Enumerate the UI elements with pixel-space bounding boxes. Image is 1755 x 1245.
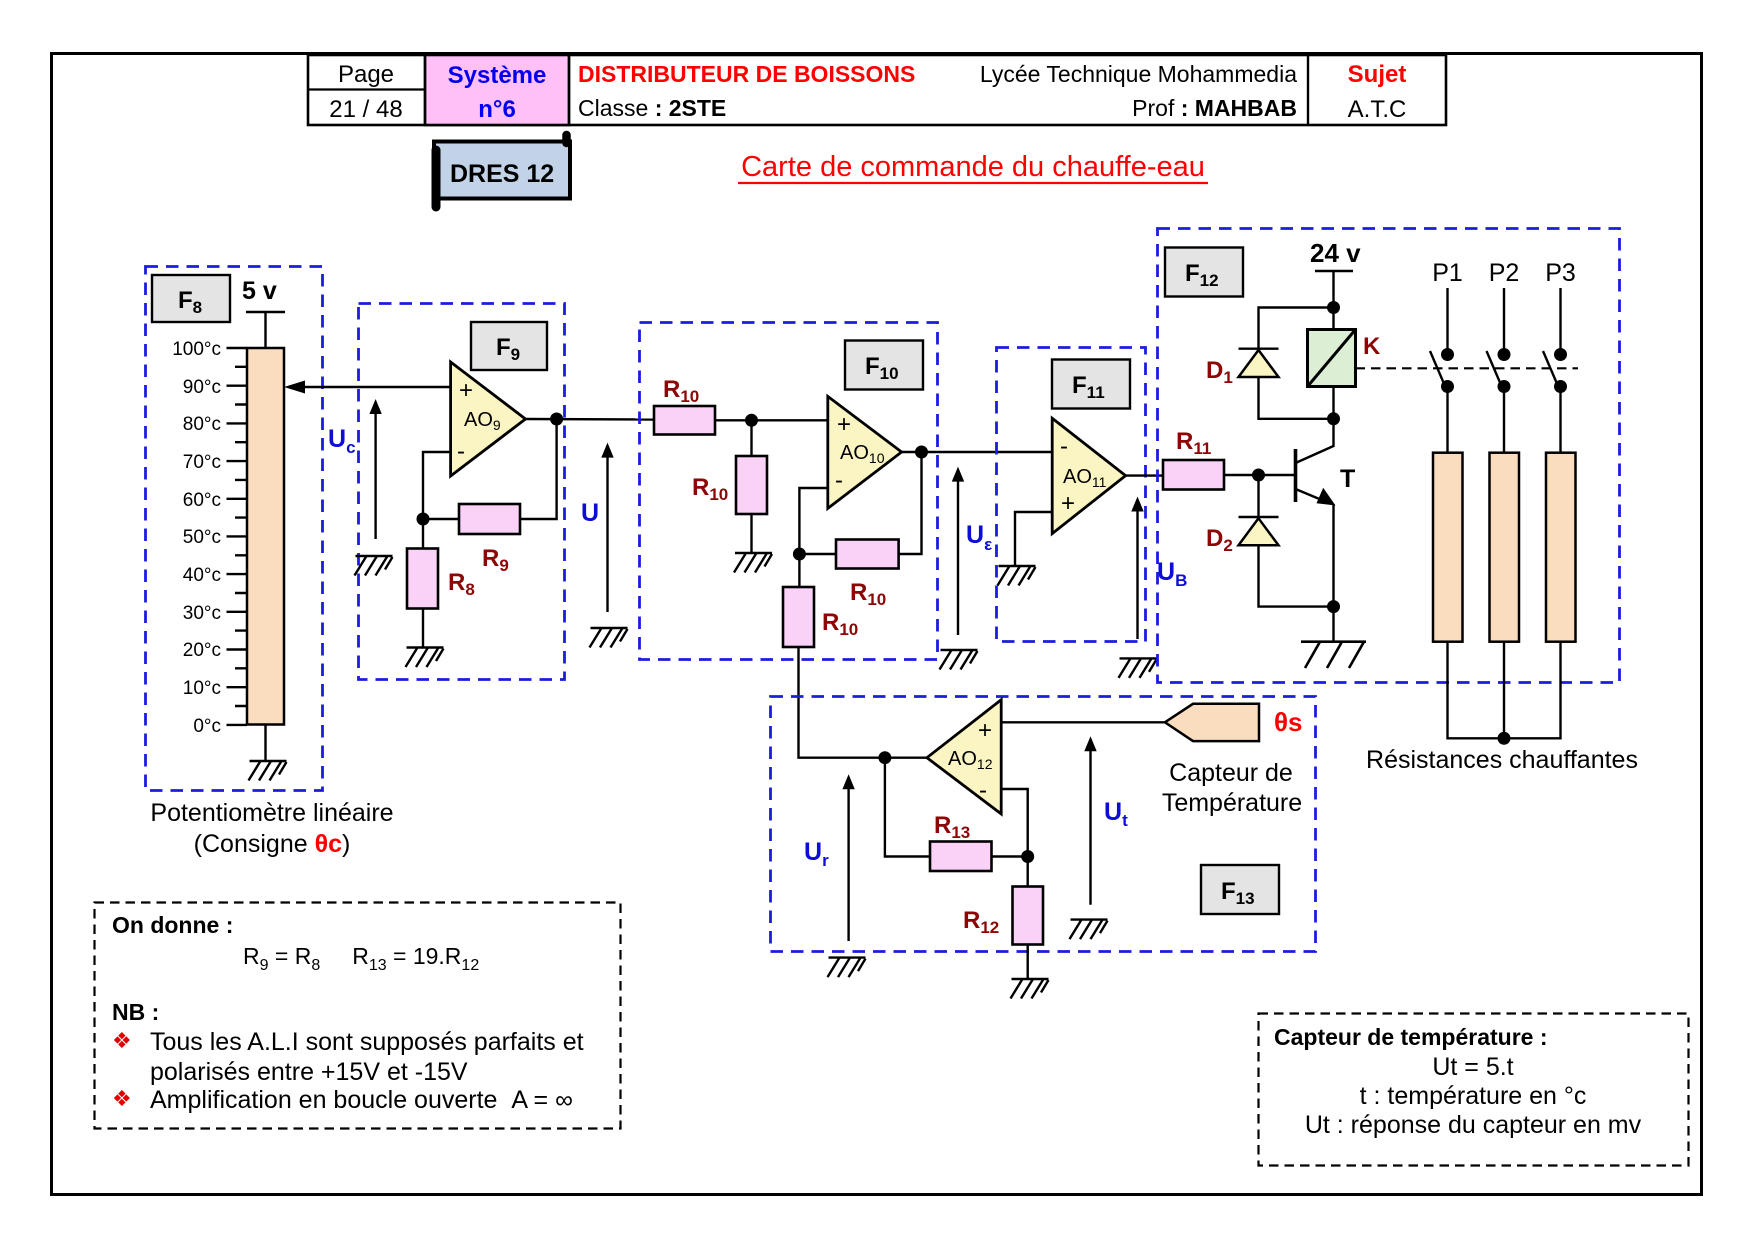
Capteur de température dashed note box	[1259, 1014, 1689, 1166]
svg-text:+: +	[837, 411, 851, 438]
heating resistor 3	[1546, 453, 1576, 642]
wire D1 bottom to collector node	[1259, 377, 1334, 419]
op-amp AO11	[1052, 418, 1125, 533]
U reference ground	[590, 628, 628, 648]
svg-text:80°c: 80°c	[183, 414, 221, 435]
ground under potentiometer	[249, 761, 287, 781]
node F9 feedback junction	[417, 513, 430, 526]
svg-text:10°c: 10°c	[183, 678, 221, 699]
svg-text:Amplification en boucle ouvert: Amplification en boucle ouverte A = ∞	[150, 1086, 573, 1114]
op-amp AO12 (points left)	[927, 700, 1001, 814]
svg-text:-: -	[457, 438, 465, 465]
svg-text:DISTRIBUTEUR DE BOISSONS: DISTRIBUTEUR DE BOISSONS	[578, 61, 915, 87]
svg-text:Sujet: Sujet	[1348, 61, 1407, 88]
node base junction	[1252, 469, 1265, 482]
wire node to R10 bottom resistor	[798, 554, 800, 587]
F10 block dashed frame	[640, 323, 938, 660]
diode D1	[1239, 349, 1279, 377]
wire AO9 inverting input to feedback node	[423, 452, 451, 519]
UB measurement arrow	[1131, 497, 1143, 640]
F8 block dashed frame	[146, 267, 323, 791]
5 v supply bar	[246, 311, 285, 313]
ground under R8	[406, 648, 444, 668]
heating resistor 2	[1490, 453, 1520, 642]
F11 label box	[1052, 360, 1130, 409]
wire R10 to AO10 + input	[715, 419, 828, 421]
ground under transistor emitter	[1301, 642, 1366, 668]
wire AO12 output node down to R13	[885, 758, 930, 857]
op-amp AO9	[451, 362, 526, 476]
svg-text:Potentiomètre linéaire: Potentiomètre linéaire	[150, 799, 393, 827]
svg-text:40°c: 40°c	[183, 565, 221, 586]
temperature sensor θs tag	[1165, 704, 1259, 741]
wire AO11 output to R11	[1126, 474, 1163, 476]
wire 5v to potentiometer top	[264, 312, 266, 348]
wire R8 to ground	[422, 609, 424, 648]
wire R9 to output node	[520, 419, 557, 519]
svg-text:P2: P2	[1489, 259, 1520, 287]
relay coil K	[1308, 330, 1356, 387]
svg-text:70°c: 70°c	[183, 452, 221, 473]
resistor R10 feedback (horizontal)	[836, 540, 899, 569]
Ur reference ground	[828, 958, 866, 978]
wire R11 to transistor base	[1224, 474, 1296, 476]
On donne dashed note box	[95, 903, 621, 1129]
header table column line 2	[568, 55, 570, 125]
mechanical link dashed line from K to switches	[1356, 367, 1579, 369]
Ut measurement arrow	[1084, 736, 1096, 905]
wire R10 feedback to output node	[899, 452, 922, 554]
svg-text:100°c: 100°c	[172, 339, 221, 360]
DRES 12 tag box	[434, 135, 570, 207]
node F10 feedback junction	[793, 548, 806, 561]
resistor R10 shunt (vertical)	[736, 456, 767, 514]
node 24v branch junction	[1327, 301, 1340, 314]
svg-text:Capteur de température :: Capteur de température :	[1274, 1024, 1548, 1050]
header table row divider (Page column)	[308, 88, 425, 90]
wire emitter down to ground	[1332, 504, 1334, 642]
24 v supply bar	[1315, 270, 1353, 272]
resistor R10 input (horizontal)	[654, 406, 715, 435]
svg-text:-: -	[979, 777, 987, 804]
Ut reference ground	[1070, 920, 1108, 940]
ground under R12	[1011, 979, 1049, 999]
wire AO12 + input to temperature sensor	[1001, 721, 1166, 723]
F11 block dashed frame	[997, 348, 1146, 642]
wire D2 bottom to emitter node	[1259, 545, 1334, 606]
resistor R11	[1163, 460, 1224, 490]
wiper wire to AO9 + input with arrow	[284, 381, 451, 394]
svg-text:(Consigne θc): (Consigne θc)	[194, 830, 351, 858]
svg-text:Prof : MAHBAB: Prof : MAHBAB	[1132, 95, 1297, 121]
svg-text:On donne :: On donne :	[112, 912, 233, 938]
heating resistor 1	[1433, 453, 1463, 642]
wire heating resistors to common bus	[1448, 642, 1561, 739]
svg-text:A.T.C: A.T.C	[1348, 96, 1407, 123]
switch P2	[1487, 288, 1511, 453]
svg-text:Ut : réponse du capteur en mv: Ut : réponse du capteur en mv	[1305, 1111, 1642, 1139]
node collector junction	[1327, 412, 1340, 425]
svg-text:20°c: 20°c	[183, 640, 221, 661]
svg-text:Classe : 2STE: Classe : 2STE	[578, 95, 726, 121]
svg-text:Carte de commande du chauffe-e: Carte de commande du chauffe-eau	[741, 151, 1205, 183]
Uε reference ground	[940, 650, 978, 670]
wire node to R12	[1026, 857, 1028, 887]
header table column line 1	[424, 55, 426, 125]
F12 block dashed frame	[1158, 229, 1620, 683]
U measurement arrow	[601, 443, 613, 612]
svg-text:n°6: n°6	[478, 96, 516, 123]
svg-text:P3: P3	[1545, 259, 1576, 287]
svg-text:+: +	[978, 717, 992, 744]
svg-text:DRES 12: DRES 12	[450, 160, 554, 188]
resistor R13	[930, 842, 992, 872]
potentiometer P body	[247, 348, 284, 725]
resistor R10 bottom (vertical)	[783, 587, 814, 647]
node AO9 output junction	[550, 413, 563, 426]
svg-text:21 / 48: 21 / 48	[329, 96, 402, 123]
svg-text:+: +	[1061, 490, 1075, 517]
switch P3	[1543, 288, 1567, 453]
svg-text:-: -	[835, 467, 843, 494]
svg-text:K: K	[1363, 333, 1381, 360]
wire AO11 + input to ground	[1015, 512, 1052, 566]
potentiometer scale ticks	[227, 348, 248, 725]
svg-text:0°c: 0°c	[193, 716, 221, 737]
svg-text:Résistances chauffantes: Résistances chauffantes	[1366, 746, 1638, 774]
F8 label box	[152, 275, 230, 322]
ground under R10 shunt	[734, 553, 772, 573]
svg-text:Lycée Technique Mohammedia: Lycée Technique Mohammedia	[980, 61, 1297, 87]
wire node to R8	[422, 519, 424, 549]
resistor R8	[407, 549, 438, 609]
node F10 input junction	[745, 414, 758, 427]
svg-text:❖: ❖	[112, 1028, 132, 1053]
node AO10 output junction	[915, 446, 928, 459]
svg-text:Page: Page	[338, 61, 394, 88]
svg-text:5 v: 5 v	[242, 277, 277, 305]
svg-text:50°c: 50°c	[183, 527, 221, 548]
node R12/R13 junction	[1021, 850, 1034, 863]
F9 label box	[471, 322, 547, 370]
resistor R12	[1013, 887, 1044, 945]
Uc measurement arrow	[369, 399, 381, 539]
Ur measurement arrow	[842, 774, 854, 941]
wire R10 shunt to ground	[750, 514, 752, 553]
svg-text:polarisés entre +15V et -15V: polarisés entre +15V et -15V	[150, 1058, 468, 1086]
svg-text:30°c: 30°c	[183, 603, 221, 624]
wire AO9 output	[526, 418, 655, 421]
node bus junction	[1498, 732, 1511, 745]
wire junction to R10 shunt	[750, 420, 752, 456]
svg-text:NB :: NB :	[112, 999, 159, 1025]
F9 block dashed frame	[359, 304, 565, 680]
wire AO10 inverting input to feedback node	[799, 488, 827, 554]
page title Carte de commande du chauffe-eau	[738, 151, 1208, 183]
F12 label box	[1165, 248, 1243, 297]
F13 label box	[1201, 865, 1279, 914]
svg-text:❖: ❖	[112, 1086, 132, 1111]
svg-text:+: +	[459, 377, 473, 404]
resistor R9	[459, 504, 520, 534]
header table outer box	[308, 55, 1446, 125]
Uε measurement arrow	[952, 467, 964, 635]
wire node to R10 feedback	[799, 553, 836, 555]
wire 24v down to relay and collector	[1332, 271, 1334, 447]
diode D2	[1239, 517, 1279, 545]
svg-text:Capteur de: Capteur de	[1169, 759, 1293, 787]
transistor T	[1296, 446, 1356, 506]
header cell Système pink background	[425, 55, 569, 125]
F13 block dashed frame	[771, 697, 1316, 952]
header table column line 3	[1307, 55, 1309, 125]
svg-text:24 v: 24 v	[1310, 238, 1361, 268]
svg-text:P1: P1	[1432, 259, 1463, 287]
svg-text:90°c: 90°c	[183, 377, 221, 398]
wire potentiometer bottom to ground	[264, 725, 266, 762]
svg-text:T: T	[1340, 465, 1355, 493]
wire base node down to D2	[1257, 475, 1259, 517]
UB reference ground	[1119, 658, 1157, 678]
svg-text:Ut = 5.t: Ut = 5.t	[1432, 1053, 1513, 1081]
wire R13 to R12 node	[992, 855, 1028, 857]
wire R10 bottom down to AO12 output node	[799, 647, 928, 758]
op-amp AO10	[828, 396, 902, 508]
F10 label box	[845, 341, 923, 390]
wire R12 to ground	[1026, 945, 1028, 980]
svg-text:Température: Température	[1162, 789, 1302, 817]
wire 24v node to D1 top	[1259, 308, 1334, 349]
node AO12 output junction	[878, 751, 891, 764]
svg-text:60°c: 60°c	[183, 490, 221, 511]
wire node to R9	[423, 518, 459, 520]
svg-text:Tous les A.L.I sont supposés p: Tous les A.L.I sont supposés parfaits et	[150, 1028, 584, 1056]
svg-text:θs: θs	[1274, 707, 1303, 737]
wire AO10 output to AO11	[902, 451, 1053, 453]
svg-text:t : température en °c: t : température en °c	[1360, 1082, 1587, 1110]
svg-text:U: U	[581, 499, 599, 527]
svg-text:Système: Système	[448, 62, 547, 89]
Uc reference ground	[355, 556, 393, 576]
switch P1	[1430, 288, 1454, 453]
wire AO12 - input to R12 node	[1001, 789, 1027, 857]
ground AO11 + input	[998, 566, 1036, 586]
svg-text:-: -	[1060, 433, 1068, 460]
node emitter junction	[1327, 600, 1340, 613]
